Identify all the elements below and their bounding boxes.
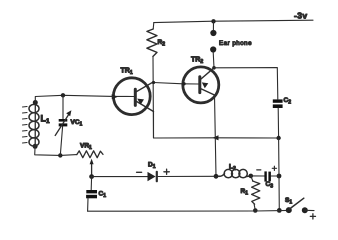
node R1 top junction — [249, 174, 254, 179]
wire right vertical to bottom rail — [278, 176, 280, 210]
node TR2 collector junction — [212, 66, 216, 70]
svg-text:Ear phone: Ear phone — [219, 40, 252, 47]
inductor L2 — [219, 169, 251, 177]
capacitor C2 — [273, 99, 283, 138]
wire tank bottom — [35, 146, 77, 155]
wire tank top to TR1 base — [35, 95, 113, 102]
node emitter rail junction — [213, 135, 219, 140]
wire TR2 base — [154, 83, 183, 84]
inductor L1 — [29, 100, 39, 149]
variable capacitor VC1 — [55, 95, 71, 155]
label plus after C3 — [272, 166, 276, 170]
wire TR1 emitter drop to rail — [154, 112, 279, 139]
node C3 right junction — [277, 174, 282, 179]
wire TR2 emitter drop — [215, 95, 217, 176]
label plus after D1 — [164, 169, 169, 174]
label minus before C3 — [257, 169, 261, 171]
diode D1 — [148, 172, 157, 181]
resistor R1 — [251, 176, 260, 211]
wire earphone upper lead — [212, 21, 214, 30]
node R1 bottom junction — [253, 208, 258, 213]
node bottom rail right junction — [277, 208, 282, 213]
wire detector line to D1 — [92, 176, 148, 178]
node earphone terminal top — [210, 30, 216, 36]
node VC1 bottom junction — [58, 153, 62, 157]
wire D1 to L2 node — [158, 175, 216, 177]
wire right vertical to C3 node — [278, 138, 280, 176]
L1 core marks — [23, 107, 28, 144]
node VC1 top junction — [61, 93, 65, 97]
node battery junction on top rail — [211, 19, 215, 23]
node L2 left junction — [214, 174, 219, 179]
wire bottom rail — [88, 209, 289, 212]
node earphone terminal bottom — [210, 46, 216, 52]
resistor R2 — [147, 23, 157, 138]
label plus battery positive — [310, 214, 315, 219]
transistor TR2 — [182, 67, 219, 103]
node detector junction — [89, 174, 94, 179]
switch S1 — [286, 198, 314, 213]
label minus before D1 — [137, 171, 142, 173]
capacitor C3 — [264, 171, 279, 181]
node C2 bottom junction — [276, 136, 280, 140]
wire L2 node to C3 — [251, 175, 265, 177]
wire top supply rail — [154, 20, 313, 22]
variable resistor VR1 — [77, 151, 103, 177]
svg-text:-3v: -3v — [294, 11, 308, 21]
wire TR2 collector to C2 top — [214, 68, 278, 99]
wire earphone lower lead — [212, 52, 215, 68]
capacitor C1 — [86, 177, 97, 212]
transistor TR1 — [112, 78, 154, 115]
